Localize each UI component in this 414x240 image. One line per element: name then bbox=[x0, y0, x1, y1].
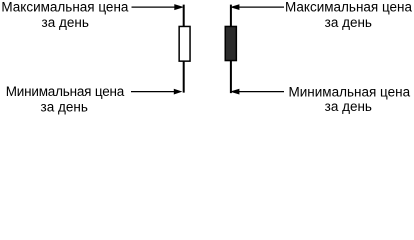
svg-text:Минимальная цена: Минимальная цена bbox=[289, 84, 411, 99]
svg-text:Максимальная цена: Максимальная цена bbox=[285, 0, 413, 15]
arrow: to left candle high bbox=[132, 4, 185, 10]
label: minimum price (right candle) bbox=[289, 84, 411, 114]
svg-text:Минимальная цена: Минимальная цена bbox=[6, 84, 125, 99]
label: minimum price (left candle) bbox=[6, 84, 125, 114]
body: right black candle bbox=[225, 26, 236, 60]
label: maximum price (right candle) bbox=[285, 0, 413, 30]
arrow: to left candle low bbox=[131, 89, 182, 95]
label: maximum price (left candle) bbox=[1, 0, 129, 30]
svg-text:за день: за день bbox=[42, 15, 89, 30]
wick: left (white) candle shadow bbox=[183, 5, 185, 93]
svg-text:за день: за день bbox=[41, 99, 88, 114]
svg-text:за день: за день bbox=[325, 15, 372, 30]
body: left white candle bbox=[179, 26, 190, 61]
arrow: to right candle low bbox=[230, 89, 284, 95]
svg-text:за день: за день bbox=[325, 99, 372, 114]
wick: right (black) candle shadow bbox=[230, 5, 232, 94]
svg-text:Максимальная цена: Максимальная цена bbox=[1, 0, 129, 15]
arrow: to right candle high bbox=[230, 4, 284, 10]
